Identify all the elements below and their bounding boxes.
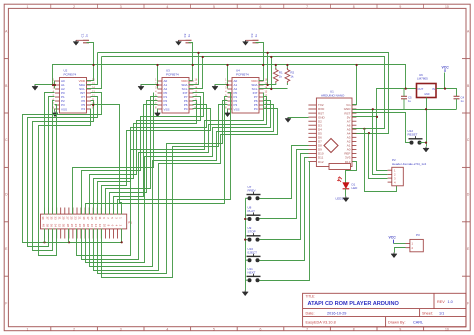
- svg-text:1u: 1u: [408, 99, 412, 103]
- capacitor C3: [246, 40, 259, 43]
- wire loop U4.INT to P1 bottom pin9: [77, 93, 264, 256]
- svg-text:PCF8574: PCF8574: [236, 72, 249, 76]
- svg-text:21: 21: [78, 216, 82, 220]
- svg-text:VSS: VSS: [164, 108, 170, 112]
- junction button rail: [244, 218, 246, 220]
- wire U2 P4 wrap: [39, 109, 91, 256]
- IC U1 ARDUINO NANO body: [316, 98, 352, 167]
- U4 pin stubs: [228, 81, 264, 109]
- junction R2-VCC: [286, 64, 288, 66]
- svg-text:RESET: RESET: [408, 133, 418, 137]
- junction Vin-VCC: [356, 64, 358, 66]
- wire U4 VDD riser / C3 drop: [256, 43, 264, 81]
- resistor R1 1k: [273, 65, 278, 85]
- wire bus U3.P4 to P1 pin15: [102, 109, 211, 215]
- svg-text:8: 8: [353, 327, 355, 331]
- U2 pin numbers: [53, 79, 96, 110]
- svg-text:9: 9: [399, 327, 401, 331]
- capacitor C1: [76, 40, 89, 43]
- svg-text:10: 10: [445, 327, 449, 331]
- svg-text:14: 14: [94, 224, 98, 228]
- connector P2 body: [392, 167, 404, 186]
- wire bus U4.P1 to P1 pin11: [86, 97, 228, 215]
- P1 pin numbers: [41, 216, 122, 227]
- wire A5 branch to P2 pin4: [365, 129, 397, 192]
- svg-text:1u: 1u: [85, 34, 89, 38]
- svg-text:30: 30: [62, 224, 66, 228]
- wire VCC rail: [53, 65, 406, 89]
- svg-text:6: 6: [260, 5, 262, 9]
- IC U4 PCF8574 body: [232, 78, 259, 114]
- ground button rail: [242, 291, 248, 296]
- push button U12 RESET: [408, 129, 423, 144]
- wire reset to gnd rail drop: [420, 142, 427, 144]
- svg-text:5: 5: [213, 327, 215, 331]
- junction U2 A1: [52, 84, 54, 86]
- svg-text:6: 6: [260, 327, 262, 331]
- ground at C2: [176, 40, 182, 45]
- capacitor C5: [401, 89, 407, 110]
- svg-text:11: 11: [98, 216, 102, 219]
- ground U4 address: [212, 85, 218, 90]
- svg-text:1/1: 1/1: [439, 311, 444, 315]
- wire PLAY to D9: [260, 150, 309, 219]
- wire loop U4.P5 to P1 bottom pin12: [90, 105, 274, 267]
- svg-text:1k: 1k: [279, 74, 283, 78]
- svg-text:VSS: VSS: [61, 108, 67, 112]
- svg-text:4: 4: [166, 5, 168, 9]
- wire bus U3.P1 to P1 pin16: [106, 97, 158, 215]
- wire Vin riser: [353, 65, 357, 105]
- wire D13 to LED: [346, 162, 357, 183]
- wire STOP to D10: [260, 154, 309, 240]
- junction U4 A1: [226, 84, 228, 86]
- svg-text:LM7805: LM7805: [417, 77, 428, 81]
- svg-text:NEXT: NEXT: [248, 270, 256, 274]
- svg-text:CARL: CARL: [413, 321, 423, 325]
- svg-text:1: 1: [27, 5, 29, 9]
- svg-text:F: F: [5, 301, 7, 305]
- junction C3-VCC: [262, 64, 264, 66]
- svg-text:37: 37: [45, 216, 49, 220]
- svg-text:P3: P3: [164, 103, 168, 107]
- svg-text:F: F: [467, 301, 469, 305]
- junction U6 GND: [425, 108, 427, 110]
- title block frame: [303, 293, 466, 327]
- wire P3 pin2 to ground: [395, 248, 406, 253]
- svg-text:13: 13: [94, 216, 98, 220]
- svg-text:19: 19: [82, 216, 86, 220]
- U3 pin stubs: [158, 81, 194, 109]
- resistor R2 1k: [285, 65, 290, 85]
- connector P1 body: [41, 214, 127, 229]
- capacitor C2: [179, 40, 192, 43]
- svg-text:LED: LED: [352, 186, 359, 190]
- wire loop U4.P7 to P1 bottom pin10: [82, 97, 267, 260]
- LED D1: [337, 177, 349, 189]
- svg-text:PLAY: PLAY: [248, 209, 255, 213]
- wire NEXT to D12: [260, 162, 310, 281]
- svg-text:5: 5: [213, 5, 215, 9]
- svg-text:VCC: VCC: [442, 65, 450, 69]
- push button U8 PLAY: [247, 206, 261, 221]
- capacitor C4: [454, 96, 460, 109]
- junction U3 SCL: [202, 56, 204, 58]
- junction U3 SDA: [197, 52, 199, 54]
- wire U3 VDD riser / C2 drop: [189, 43, 193, 81]
- wire U2 P6 wrap: [33, 101, 94, 251]
- wire loop U4.P3 to P1 bottom pin15: [102, 105, 228, 278]
- svg-text:P4: P4: [81, 107, 85, 111]
- svg-text:39: 39: [41, 216, 45, 220]
- wire loop U4.P4 to P1 bottom pin13: [94, 109, 278, 271]
- svg-text:EasyEDA V3.10.8: EasyEDA V3.10.8: [306, 321, 336, 325]
- svg-text:26: 26: [70, 224, 74, 228]
- wire U3 SDA riser: [189, 53, 199, 85]
- ground U6: [423, 147, 429, 152]
- svg-text:3: 3: [120, 327, 122, 331]
- junction bottom rail: [43, 241, 45, 243]
- svg-text:7: 7: [306, 327, 308, 331]
- P1 pin stubs: [45, 208, 122, 239]
- svg-text:2016-10-29: 2016-10-29: [327, 311, 346, 315]
- ground U1 left: [285, 117, 291, 122]
- IC U2 PCF8574 body: [60, 78, 87, 114]
- svg-text:24: 24: [74, 224, 78, 228]
- junction 5V: [376, 116, 378, 118]
- svg-text:1.0: 1.0: [448, 300, 453, 304]
- svg-text:Sheet:: Sheet:: [422, 311, 433, 315]
- ground LED: [343, 197, 349, 202]
- svg-text:PCF8574: PCF8574: [64, 72, 77, 76]
- wire U2 address tie: [54, 81, 56, 89]
- svg-text:PCF8574: PCF8574: [166, 72, 179, 76]
- wire GND rail right: [353, 109, 457, 111]
- ground at C1: [73, 40, 79, 45]
- svg-text:40: 40: [41, 224, 45, 228]
- U1 bottom rectangle: [329, 164, 351, 170]
- svg-text:VSS: VSS: [234, 108, 240, 112]
- U2 pin names: [61, 79, 86, 111]
- U3 pin names: [164, 79, 189, 111]
- svg-text:STOP: STOP: [248, 230, 256, 234]
- svg-text:8: 8: [353, 5, 355, 9]
- junction reset: [425, 142, 427, 144]
- svg-text:P3: P3: [234, 103, 238, 107]
- wire A5 SCL: [352, 128, 354, 130]
- P2 pin stubs: [388, 168, 396, 184]
- wire U3 SCL riser: [189, 57, 203, 89]
- svg-text:2: 2: [73, 5, 75, 9]
- junction U3 A1: [156, 84, 158, 86]
- svg-text:1u: 1u: [461, 99, 465, 103]
- svg-text:17: 17: [86, 216, 90, 220]
- svg-text:34: 34: [54, 224, 58, 228]
- wire RST to reset button: [353, 113, 410, 143]
- wire VCC flag drop: [444, 73, 446, 89]
- wire U4 SCL riser and R2 bottom: [259, 88, 288, 90]
- svg-text:35: 35: [49, 216, 53, 220]
- ground U2 address: [32, 85, 38, 90]
- junction regulator out: [405, 88, 407, 90]
- wire U4 SDA riser and R1 bottom: [259, 84, 276, 86]
- wire U2 SDA riser: [87, 53, 98, 85]
- wire bus U3.P5 to P1 pin14: [98, 105, 207, 215]
- wire bottom pin stubs to rail: [44, 229, 46, 243]
- junction A5: [363, 128, 365, 130]
- svg-text:REV: REV: [437, 300, 445, 304]
- svg-text:GND: GND: [424, 93, 430, 96]
- svg-text:1u: 1u: [187, 34, 191, 38]
- svg-text:PREV: PREV: [248, 188, 256, 192]
- ground U3 VSS: [157, 109, 159, 112]
- wire U2 P2 to P1: [53, 101, 55, 215]
- wire A4 branch to P2 pin3: [369, 134, 388, 179]
- svg-text:23: 23: [74, 216, 78, 220]
- wire SDA rail: [98, 53, 389, 134]
- push button U11 NEXT: [247, 267, 261, 282]
- U2 pin stubs: [55, 81, 91, 109]
- wire bus U3.P7 to P1 pin12: [90, 97, 201, 215]
- wire U3 address tie: [157, 81, 159, 89]
- ground U4 VSS: [227, 109, 229, 112]
- push button U9 STOP: [247, 226, 261, 241]
- svg-text:20: 20: [82, 224, 86, 228]
- wire U4 address tie: [227, 81, 229, 89]
- wire U2 SCL riser: [87, 57, 102, 89]
- svg-text:32: 32: [58, 224, 62, 228]
- svg-text:2: 2: [73, 327, 75, 331]
- wire bus U3.P0 to P1 pin8: [73, 93, 154, 215]
- U1 logo diamond: [324, 139, 338, 153]
- wire 5V from regulator to P2 pin1: [377, 89, 417, 171]
- wire PREV to D8: [260, 146, 309, 199]
- connector P3 body: [410, 239, 423, 251]
- wire 5V row: [353, 116, 377, 118]
- svg-text:18: 18: [86, 224, 90, 228]
- wire P3 pin1 to VCC: [394, 243, 406, 245]
- IC U3 PCF8574 body: [162, 78, 189, 114]
- push button U7 PREV: [247, 185, 261, 200]
- wire button common rail: [245, 199, 247, 291]
- U1 pin stubs: [308, 105, 356, 162]
- svg-text:27: 27: [66, 216, 70, 220]
- wire EJECT to D11: [260, 158, 309, 261]
- junction C1-VCC: [92, 64, 94, 66]
- IC U6 LM7805 body: [417, 84, 437, 98]
- wire loop U4.P6 to P1 bottom pin11: [86, 101, 271, 263]
- svg-text:ATAPI CD ROM PLAYER ARDUINO: ATAPI CD ROM PLAYER ARDUINO: [308, 301, 400, 307]
- junction VCC flag: [444, 88, 446, 90]
- wire U2 P7 wrap: [28, 97, 98, 247]
- P3 pin stubs: [406, 243, 410, 245]
- svg-text:28: 28: [66, 224, 70, 228]
- wire GND branch to P2 pin2: [373, 110, 388, 175]
- svg-text:VCC: VCC: [389, 236, 397, 240]
- svg-text:22: 22: [78, 224, 82, 228]
- wire U1 GND left: [289, 117, 309, 119]
- svg-text:31: 31: [57, 216, 61, 220]
- wire LED cathode: [345, 189, 347, 197]
- svg-text:D13: D13: [345, 160, 351, 164]
- svg-text:1u: 1u: [254, 34, 258, 38]
- svg-text:7: 7: [306, 5, 308, 9]
- svg-text:P4: P4: [184, 107, 188, 111]
- wire bus U3.P2 to P1 pin17: [110, 101, 158, 215]
- wire U6 IN to VCC: [437, 89, 457, 97]
- ground at C3: [243, 40, 249, 45]
- wire bus U4.P0 to P1 pin19: [118, 93, 231, 215]
- svg-text:10: 10: [102, 224, 106, 228]
- svg-text:12: 12: [98, 224, 102, 228]
- svg-text:29: 29: [62, 216, 66, 220]
- svg-text:1k: 1k: [290, 74, 294, 78]
- U4 pin numbers: [225, 79, 268, 110]
- ground U2 VSS: [54, 109, 56, 112]
- svg-text:36: 36: [49, 224, 53, 228]
- svg-text:P3: P3: [61, 103, 65, 107]
- wire bus U3.P3 to P1 pin18: [114, 105, 158, 215]
- U4 pin names: [234, 79, 259, 111]
- ground U3 address: [138, 85, 144, 90]
- U1 pin names: [318, 103, 351, 164]
- svg-text:IN: IN: [432, 87, 435, 91]
- junction GND-P2: [372, 108, 374, 110]
- U6 GND drop: [426, 98, 428, 147]
- wire U2 INT wrap: [23, 93, 122, 243]
- push button U10 EJECT: [247, 247, 261, 262]
- svg-text:16: 16: [90, 224, 94, 228]
- wire bus U3.INT to P1 pin10: [82, 93, 204, 215]
- wire U2 P0 to P1: [45, 93, 55, 215]
- svg-text:1: 1: [27, 327, 29, 331]
- ground P3: [391, 253, 397, 258]
- svg-text:3: 3: [120, 5, 122, 9]
- svg-text:15: 15: [90, 216, 94, 220]
- junction A4: [368, 132, 370, 134]
- U3 pin numbers: [155, 79, 198, 110]
- wire U2 VDD riser / C1 drop: [87, 43, 94, 81]
- svg-text:TITLE:: TITLE:: [306, 295, 316, 299]
- junction R1-VCC: [275, 64, 277, 66]
- svg-text:9: 9: [399, 5, 401, 9]
- svg-text:Drawn By:: Drawn By:: [388, 321, 406, 325]
- svg-text:OUT: OUT: [418, 87, 424, 91]
- wire bus U3.P6 to P1 pin13: [94, 101, 197, 215]
- wire U2 P3 to P1: [55, 105, 57, 215]
- svg-text:EJECT: EJECT: [248, 250, 258, 254]
- svg-text:4: 4: [166, 327, 168, 331]
- svg-text:Header-Female-2.54_1x4: Header-Female-2.54_1x4: [392, 162, 427, 166]
- wire U2 P5 long run: [91, 105, 122, 215]
- svg-text:Date:: Date:: [306, 311, 315, 315]
- svg-text:25: 25: [70, 216, 74, 220]
- svg-text:38: 38: [45, 224, 49, 228]
- wire loop U4.P2 to P1 bottom pin14: [98, 101, 228, 274]
- title block text: [306, 295, 453, 325]
- svg-text:ARDUINO NANO: ARDUINO NANO: [321, 94, 345, 98]
- svg-text:10: 10: [445, 5, 449, 9]
- wire SCL rail: [102, 57, 385, 129]
- svg-text:P3: P3: [416, 233, 420, 237]
- svg-text:33: 33: [53, 216, 57, 220]
- svg-text:D12: D12: [318, 160, 324, 164]
- junction C2-VCC: [192, 64, 194, 66]
- wire U2 P1 to P1: [49, 97, 55, 215]
- junction U2 P5: [92, 104, 94, 106]
- svg-text:P4: P4: [254, 107, 258, 111]
